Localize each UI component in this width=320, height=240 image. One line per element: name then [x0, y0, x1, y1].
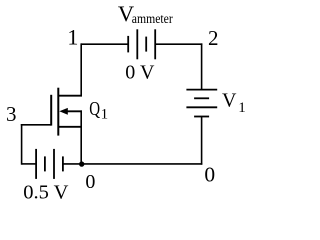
0.5V tall plate — [53, 149, 55, 179]
svg-text:1: 1 — [101, 106, 109, 122]
svg-text:2: 2 — [208, 26, 219, 50]
battery 0.5 V plates — [36, 149, 63, 179]
wire: left vertical of gate loop — [21, 124, 23, 165]
drain stub — [58, 95, 82, 97]
svg-text:0: 0 — [85, 171, 95, 193]
transistor Q1 (N-channel MOSFET) — [51, 88, 82, 164]
wire top-left: node 1 to ammeter — [81, 43, 129, 45]
arrowhead of Q1 body (pointing left) — [59, 108, 68, 115]
wire bottom: junction dot to bottom-right corner — [82, 163, 203, 165]
body stub with arrow line — [64, 110, 82, 112]
channel line — [57, 88, 59, 136]
0.5V short plate right — [62, 156, 64, 171]
0.5V tall plate left — [35, 149, 37, 179]
ammeter tall plate 2 — [154, 29, 156, 59]
body/source vertical — [80, 110, 82, 164]
wire: gate lead — [21, 124, 51, 126]
wire left branch: node 1 down to Q1 drain — [80, 43, 82, 96]
ammeter middle short plate — [145, 37, 147, 52]
wire right branch lower: V1 down to bottom corner — [201, 117, 203, 165]
ammeter (0 V dummy source) plates — [128, 29, 155, 59]
wire: 0.5V battery positive to gate loop (left drop) — [22, 163, 37, 165]
battery V1 plates — [186, 90, 217, 117]
ammeter left short plate — [127, 36, 129, 53]
svg-text:V: V — [222, 90, 237, 112]
svg-text:0.5 V: 0.5 V — [23, 181, 68, 203]
V1 short plate — [194, 97, 209, 99]
wire top-right: ammeter to node 2 corner — [155, 43, 203, 45]
svg-text:3: 3 — [6, 102, 17, 126]
V1 long plate top — [186, 89, 217, 91]
ammeter tall plate 1 — [136, 29, 138, 59]
svg-text:ammeter: ammeter — [132, 12, 173, 27]
junction dot node 0 — [79, 161, 84, 166]
svg-text:1: 1 — [67, 25, 78, 50]
wire right branch upper: node 2 down to V1 — [201, 43, 203, 90]
svg-text:Q: Q — [89, 98, 100, 120]
wire: 0.5V battery negative to junction dot — [63, 163, 82, 165]
V1 short plate bottom — [194, 116, 209, 118]
svg-text:0: 0 — [204, 162, 215, 186]
svg-text:1: 1 — [238, 100, 246, 116]
0.5V short plate — [44, 156, 46, 171]
svg-text:V: V — [140, 62, 155, 84]
svg-text:0: 0 — [125, 62, 135, 84]
source stub — [58, 126, 82, 128]
V1 long plate — [186, 106, 217, 108]
gate plate — [50, 95, 52, 126]
